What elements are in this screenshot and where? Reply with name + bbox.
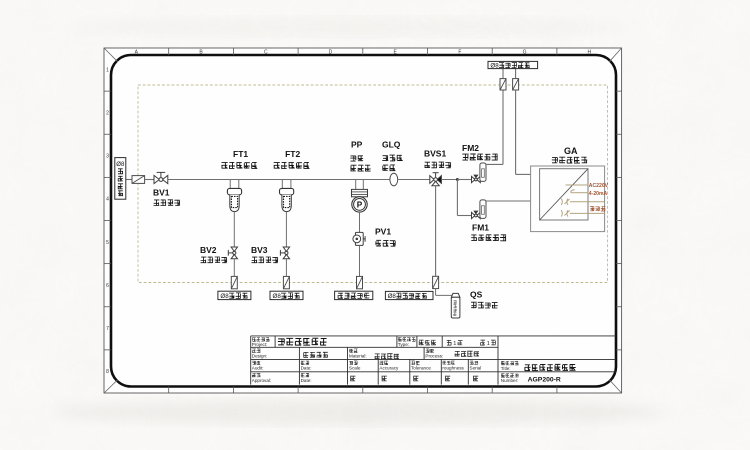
pipe: valve to drain fitting [285,259,287,277]
vent bulkhead fitting 1 [500,79,506,90]
pipe: fitting to BV1 [145,179,154,181]
port label sample inlet (vertical) [115,158,126,200]
pipe: analyzer exhaust riser [515,90,517,174]
pipe: junction to FM2 valve [457,179,471,181]
junction node [456,178,459,181]
pipe: filter to BV3 [285,212,287,248]
title block texts [252,338,256,342]
signal line AC220V [566,184,589,186]
pipe: filter to BV2 [233,212,235,248]
filter GLQ bag filter [390,173,398,186]
pipe: BV1 to GLQ [168,179,390,181]
filter FT1 precision filter [227,180,241,212]
drain bulkhead fitting [231,276,237,288]
port label drain [218,291,251,299]
valve BV1 two-way ball valve [154,172,168,183]
corner mitre diagonals [104,48,118,62]
pipe: FM1 to analyzer [486,200,531,202]
dashed cabinet boundary [138,85,608,283]
pipe: junction down to FM1 [456,180,458,216]
vent bulkhead fitting 2 [513,79,519,90]
label switch outputs [590,207,595,212]
gas cylinder QS [451,293,460,318]
grid reference ticks and labels [168,48,170,55]
analyzer GA outer box [531,166,605,232]
pipe: BVS1 to junction [441,179,457,181]
valve BV3 two-way ball valve [280,247,289,259]
sheet outer frame [104,48,622,393]
pipe: FM2 to vent riser [486,163,503,165]
port label drain [270,291,303,299]
valve of FM2 flow meter [472,175,481,183]
pipe: PV1 to air fitting [359,245,361,276]
standard gas bulkhead fitting [433,276,439,288]
rotameter FM1 sample flow meter [480,200,486,219]
port label standard gas inlet [385,291,433,299]
valve of FM1 flow meter [472,211,481,219]
pipe: GLQ to BVS1 [398,179,430,181]
valve BV2 two-way ball valve [228,247,237,259]
drain bulkhead fitting [283,276,289,288]
pipe: pump to PV1 [359,212,361,232]
inlet bulkhead fitting [132,176,145,184]
sheet thick rounded border [111,55,616,387]
pipe: BVS1 down to standard gas [435,186,437,277]
rotameter FM2 vent flow meter [480,163,486,181]
relay contact output 1 [561,199,568,205]
analyzer GA inner box with diagonal [540,169,588,220]
pipe: sample inlet to BV1 [126,179,132,181]
title block table [251,336,616,385]
filter FT2 precision filter [280,180,294,212]
port label exhaust vent [488,61,538,68]
signal line 4-20mA [571,190,575,193]
compressed air bulkhead fitting [357,276,363,288]
port label compressed air inlet [335,291,373,299]
pipe: valve to drain fitting [233,259,235,277]
valve BVS1 three-way ball valve [430,173,442,186]
relay contact output 2 [561,210,568,216]
pump PP pneumatic vacuum pump [352,180,368,213]
valve PV1 pressure regulator [353,232,365,245]
